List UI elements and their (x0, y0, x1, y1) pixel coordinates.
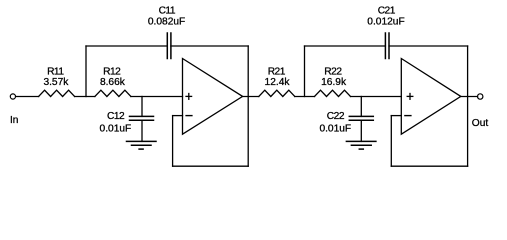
input terminal In (10, 94, 15, 99)
wire node A2 up to C21 (304, 46, 306, 97)
svg-text:16.9k: 16.9k (321, 77, 347, 88)
svg-text:12.4k: 12.4k (265, 77, 291, 88)
wire C12 to ground (141, 120, 143, 141)
svg-text:0.01uF: 0.01uF (100, 123, 132, 134)
wire node B down to C12 (141, 97, 143, 117)
svg-text:Out: Out (472, 118, 489, 129)
ground GND1 (127, 141, 157, 149)
feedback wire U2 left (390, 116, 392, 167)
wire node B2 down to C22 (360, 97, 362, 117)
wire In to R11 (16, 96, 39, 98)
svg-text:R22: R22 (324, 67, 342, 78)
svg-text:0.082uF: 0.082uF (148, 16, 185, 27)
capacitor C22 (349, 116, 373, 120)
feedback wire U2 bottom (391, 165, 467, 167)
wire U2 output to Out terminal (461, 96, 478, 98)
capacitor C21 (385, 33, 389, 59)
resistor R11 (39, 90, 75, 96)
svg-text:C22: C22 (327, 111, 345, 122)
svg-text:R21: R21 (268, 67, 286, 78)
op-amp U1 (183, 59, 243, 135)
svg-text:3.57k: 3.57k (43, 77, 69, 88)
op-amp U2 minus input symbol (405, 115, 411, 117)
wire node A to C11 left plate (86, 45, 167, 47)
feedback wire U1 bottom (173, 165, 249, 167)
op-amp U1 plus input symbol (186, 94, 192, 100)
op-amp U2 (401, 59, 461, 135)
svg-text:R11: R11 (47, 67, 64, 78)
feedback wire U2 right (output to C21) (467, 46, 469, 166)
capacitor C11 (167, 33, 171, 59)
svg-text:C11: C11 (159, 6, 176, 17)
svg-text:C21: C21 (378, 6, 396, 17)
ground GND2 (346, 141, 376, 149)
wire R12 to op-amp U1 + input (node B) (131, 96, 183, 98)
svg-text:0.01uF: 0.01uF (319, 123, 351, 134)
capacitor C12 (130, 116, 154, 120)
wire R11 to R12 (node A) (75, 96, 95, 98)
op-amp U2 plus input symbol (407, 94, 413, 100)
svg-text:R12: R12 (103, 67, 121, 78)
wire R21 to R22 (node A2) (295, 96, 315, 98)
wire node A2 to C21 left plate (305, 45, 386, 47)
resistor R12 (95, 90, 131, 96)
op-amp U1 minus input symbol (186, 115, 192, 117)
output terminal Out (478, 94, 483, 99)
wire node A up to C11 (85, 46, 87, 97)
svg-text:0.012uF: 0.012uF (367, 16, 404, 27)
wire U1 output to R21 (243, 96, 259, 98)
svg-text:In: In (10, 115, 19, 126)
resistor R21 (259, 90, 295, 96)
wire U2 inverting input (391, 115, 401, 117)
wire U1 inverting input (173, 115, 183, 117)
svg-text:C12: C12 (107, 111, 125, 122)
svg-text:8.66k: 8.66k (100, 77, 126, 88)
feedback wire U1 left (172, 116, 174, 167)
wire R22 to op-amp U2 + input (node B2) (351, 96, 402, 98)
wire C22 to ground (360, 120, 362, 141)
wire C21 right plate to feedback node (389, 45, 468, 47)
feedback wire U1 right (output to C11) (247, 46, 249, 166)
wire C11 right plate to feedback node (171, 45, 248, 47)
resistor R22 (315, 90, 351, 96)
